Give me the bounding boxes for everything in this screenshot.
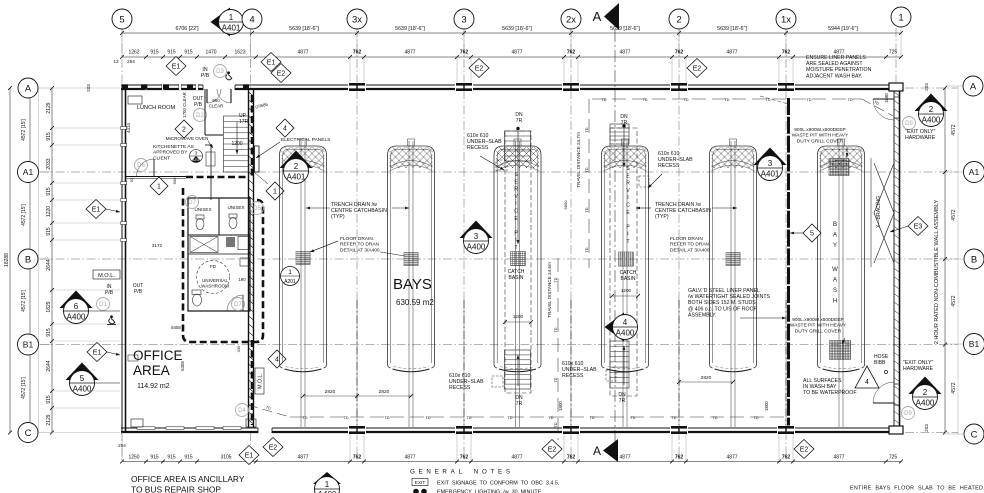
D6 tag — [135, 159, 148, 172]
svg-text:@ 406 o.c. TO U/S OF ROOF: @ 406 o.c. TO U/S OF ROOF — [688, 306, 757, 312]
svg-text:A401: A401 — [222, 24, 241, 33]
svg-text:1: 1 — [288, 269, 292, 276]
svg-text:5: 5 — [80, 374, 85, 383]
svg-text:/w WATERTIGHT SEALED JOINTS: /w WATERTIGHT SEALED JOINTS — [688, 294, 770, 300]
lunch/office divider wall — [126, 176, 186, 178]
north wall window breaks (office) — [145, 84, 147, 90]
svg-text:T: T — [626, 239, 629, 245]
TD vertical line 2 — [557, 258, 559, 440]
svg-text:LUNCH ROOM: LUNCH ROOM — [137, 105, 176, 111]
liner wall leader — [760, 96, 788, 104]
svg-text:C: C — [971, 429, 978, 440]
svg-text:FLOOR DRAIN.: FLOOR DRAIN. — [340, 236, 374, 242]
svg-text:900L.x900W.x600DEEP: 900L.x900W.x600DEEP — [794, 127, 845, 133]
svg-text:RECESS: RECESS — [658, 163, 680, 169]
2820 dims right — [679, 381, 733, 383]
svg-text:4572: 4572 — [951, 124, 957, 135]
svg-text:I: I — [627, 232, 628, 238]
svg-text:GALV.’D STEEL LINER PANEL: GALV.’D STEEL LINER PANEL — [688, 288, 760, 294]
svg-text:762: 762 — [782, 455, 791, 461]
right bubble connector line — [957, 86, 959, 434]
svg-text:S: S — [833, 288, 837, 294]
svg-text:915: 915 — [184, 50, 193, 56]
svg-text:762: 762 — [460, 455, 469, 461]
svg-text:A400: A400 — [73, 385, 92, 394]
svg-text:RECESS: RECESS — [562, 373, 584, 379]
svg-text:5944 [19'-6"]: 5944 [19'-6"] — [828, 26, 858, 32]
svg-text:18288: 18288 — [4, 253, 10, 267]
svg-text:1470: 1470 — [205, 50, 216, 56]
svg-text:D7: D7 — [234, 302, 242, 308]
svg-text:1262: 1262 — [128, 50, 139, 56]
svg-text:4: 4 — [249, 14, 254, 25]
unisex washroom fixtures — [196, 219, 204, 230]
svg-text:915: 915 — [167, 455, 176, 461]
svg-text:5639 [18'-6"]: 5639 [18'-6"] — [502, 26, 532, 32]
svg-text:A201: A201 — [192, 158, 200, 162]
svg-text:1700 CLEAR: 1700 CLEAR — [182, 92, 187, 118]
D1 tag — [97, 298, 110, 311]
office south windows — [137, 427, 155, 430]
service pit stair top bay 4 — [610, 124, 629, 144]
svg-text:A: A — [593, 444, 601, 458]
svg-text:630.59 m2: 630.59 m2 — [396, 298, 434, 307]
svg-text:D4: D4 — [238, 408, 246, 414]
svg-text:1200: 1200 — [231, 141, 242, 147]
marker 3/A401 — [754, 148, 787, 166]
svg-text:E1: E1 — [245, 453, 254, 460]
grid bubble 1 — [891, 7, 911, 27]
svg-text:FLOOR DRAIN: FLOOR DRAIN — [670, 236, 703, 242]
svg-text:D1: D1 — [99, 302, 107, 308]
D2 tag — [194, 109, 207, 122]
svg-text:CLEAR: CLEAR — [209, 103, 224, 108]
diamond E1 left low — [87, 343, 107, 362]
svg-text:335: 335 — [236, 345, 241, 352]
svg-text:E2: E2 — [269, 445, 278, 452]
svg-text:610x 610: 610x 610 — [467, 133, 488, 139]
svg-text:UNDER–SLAB: UNDER–SLAB — [449, 379, 484, 385]
marker 1/A201 — [281, 267, 300, 286]
svg-text:7R: 7R — [516, 401, 523, 407]
marker 1/A400 bottom — [313, 472, 341, 484]
svg-text:C: C — [25, 428, 32, 439]
svg-text:915: 915 — [46, 328, 52, 337]
grid bubble 2x — [561, 9, 581, 29]
grid bubble 2 — [669, 9, 689, 29]
left row bubbles — [18, 78, 38, 98]
north wall jamb blocks office — [141, 84, 147, 89]
svg-text:P/B: P/B — [194, 102, 203, 108]
X bracing — [870, 158, 872, 267]
svg-text:(TYP): (TYP) — [331, 214, 345, 220]
svg-text:W: W — [832, 267, 838, 273]
svg-text:203: 203 — [924, 83, 929, 91]
svg-text:2: 2 — [294, 162, 299, 171]
waste pit wash bay top — [829, 159, 849, 176]
grid lower dark segments — [356, 300, 358, 426]
svg-text:I: I — [515, 238, 516, 244]
trench drain bay 4 — [622, 141, 624, 427]
left dim chain 4572 — [29, 88, 31, 433]
svg-text:1200: 1200 — [621, 288, 632, 293]
svg-text:H: H — [833, 299, 837, 305]
exit door swing top right — [893, 97, 900, 118]
row A extension left — [52, 87, 120, 89]
section cut line A-A — [614, 10, 616, 452]
svg-text:D9: D9 — [904, 411, 912, 417]
grid bubble 5 — [112, 9, 132, 29]
svg-text:BIBB: BIBB — [874, 360, 886, 366]
diamond E1 left mid — [86, 200, 106, 219]
diamond E2 bottom mid — [542, 440, 562, 459]
svg-text:P/B: P/B — [201, 73, 210, 79]
svg-text:1829: 1829 — [46, 301, 52, 312]
svg-text:915: 915 — [167, 50, 176, 56]
svg-text:4: 4 — [865, 379, 869, 386]
svg-text:92: 92 — [129, 177, 134, 182]
south wall — [121, 427, 901, 429]
svg-text:G E N E R A L N O T E S: G E N E R A L N O T E S — [410, 469, 511, 476]
svg-text:TD: TD — [548, 416, 553, 420]
svg-text:DETAIL AT 3/A400: DETAIL AT 3/A400 — [670, 247, 710, 253]
accessibility symbol — [226, 71, 232, 79]
marker 2/A401 — [280, 151, 313, 169]
bus outline bay 1 — [280, 146, 327, 365]
svg-text:7R: 7R — [516, 118, 523, 124]
bus outline bay 2 — [388, 146, 435, 365]
svg-text:A1: A1 — [23, 167, 34, 177]
svg-text:2129: 2129 — [46, 102, 52, 113]
svg-text:4: 4 — [275, 357, 279, 364]
svg-text:1200: 1200 — [513, 314, 524, 319]
diamond 1 bays — [266, 182, 284, 200]
svg-text:915: 915 — [184, 455, 193, 461]
svg-text:TO BE WATERPROOF: TO BE WATERPROOF — [803, 390, 857, 396]
2820 dims left — [303, 395, 411, 397]
M.O.L. vertical corridor label — [255, 368, 264, 394]
svg-text:762: 762 — [353, 455, 362, 461]
svg-text:2129: 2129 — [46, 414, 52, 425]
D7 D5 tags — [186, 196, 199, 209]
svg-text:WASTE PIT WITH HEAVY: WASTE PIT WITH HEAVY — [792, 133, 849, 139]
svg-text:TD: TD — [847, 98, 852, 102]
svg-text:A400: A400 — [916, 399, 935, 408]
svg-text:ASSEMBLY.: ASSEMBLY. — [688, 312, 716, 318]
svg-text:1: 1 — [229, 13, 234, 22]
svg-text:BASIN: BASIN — [620, 276, 635, 282]
svg-text:AREA: AREA — [133, 363, 170, 378]
catch basin bay5 — [726, 253, 740, 266]
svg-text:E3: E3 — [914, 224, 923, 231]
svg-text:ENTIRE BAYS FLOOR SLAB TO: ENTIRE BAYS FLOOR SLAB TO BE HEATED. — [850, 486, 984, 492]
trench drain bay 1 — [300, 141, 302, 427]
service pit stair top bay 3 — [505, 131, 531, 161]
svg-text:600: 600 — [172, 177, 177, 184]
svg-text:4877: 4877 — [404, 50, 415, 56]
svg-text:TD: TD — [554, 277, 558, 282]
svg-text:A401: A401 — [287, 173, 306, 182]
svg-text:I: I — [627, 195, 628, 201]
svg-text:UNISEX: UNISEX — [194, 207, 211, 212]
service pit bay 4 dashed outline — [610, 128, 637, 396]
svg-text:TRAVEL DISTANCE 24.7m: TRAVEL DISTANCE 24.7m — [576, 132, 581, 188]
svg-text:A400: A400 — [467, 243, 486, 252]
svg-text:E2: E2 — [475, 66, 484, 73]
svg-text:5639 [18'-6"]: 5639 [18'-6"] — [289, 26, 319, 32]
diamond 4 electrical — [276, 119, 294, 137]
svg-text:3: 3 — [195, 151, 198, 156]
svg-text:915: 915 — [46, 227, 52, 236]
svg-text:E1: E1 — [172, 64, 181, 71]
svg-text:ENSURE LINER PANELS: ENSURE LINER PANELS — [806, 55, 866, 61]
D9 tag bottom — [902, 407, 915, 420]
svg-text:7R: 7R — [621, 120, 628, 126]
svg-text:725: 725 — [889, 50, 898, 56]
svg-text:CENTRE CATCHBASIN: CENTRE CATCHBASIN — [655, 208, 711, 214]
svg-text:DETAIL AT 3/A400: DETAIL AT 3/A400 — [340, 247, 380, 253]
svg-text:ALL SURFACES: ALL SURFACES — [803, 378, 842, 384]
svg-text:ADJACENT WASH BAY.: ADJACENT WASH BAY. — [806, 73, 862, 79]
svg-text:TD: TD — [585, 247, 589, 252]
svg-text:1680: 1680 — [884, 93, 889, 103]
svg-text:2820: 2820 — [379, 389, 390, 395]
svg-text:TD: TD — [724, 98, 729, 102]
svg-text:915: 915 — [46, 132, 52, 141]
svg-text:254: 254 — [118, 443, 126, 448]
diamond 5 keynote — [803, 224, 821, 242]
marker 3/A400 — [460, 221, 493, 239]
svg-text:B1: B1 — [969, 339, 980, 349]
svg-text:A: A — [833, 278, 837, 284]
svg-text:2: 2 — [923, 388, 928, 397]
svg-text:EXIT: EXIT — [415, 480, 426, 486]
svg-text:4572: 4572 — [951, 295, 957, 306]
svg-text:P/B: P/B — [105, 290, 114, 296]
svg-text:TD: TD — [712, 416, 717, 420]
svg-text:E1: E1 — [267, 60, 276, 67]
svg-text:WASHROOM: WASHROOM — [201, 284, 229, 289]
marker 2/A400 top right — [915, 94, 948, 112]
D9 tag top — [903, 117, 916, 130]
grid line 1 — [895, 28, 897, 88]
svg-text:TD: TD — [585, 207, 589, 212]
marker 5/A400 — [66, 363, 99, 381]
svg-text:E2: E2 — [548, 447, 557, 454]
svg-text:B: B — [833, 222, 837, 228]
svg-text:4572: 4572 — [951, 209, 957, 220]
svg-text:5: 5 — [119, 14, 124, 25]
grid 4 shaft wall — [248, 89, 250, 428]
svg-text:A1: A1 — [969, 167, 980, 177]
diamond E1/E2 grid4 — [261, 53, 281, 72]
svg-text:610x 610: 610x 610 — [658, 151, 679, 157]
svg-text:WASTE PIT WITH HEAVY: WASTE PIT WITH HEAVY — [790, 323, 847, 329]
top dim line 2 — [122, 56, 901, 58]
svg-text:5639 [18'-6"]: 5639 [18'-6"] — [395, 26, 425, 32]
svg-text:MICROWAVE OVEN: MICROWAVE OVEN — [166, 136, 209, 141]
svg-text:TD: TD — [765, 98, 770, 102]
svg-text:A201: A201 — [284, 279, 296, 285]
svg-text:4572 [15']: 4572 [15'] — [21, 203, 27, 225]
accessibility symbol left — [107, 315, 116, 324]
floor drain bay2 — [404, 253, 418, 266]
grid bubble 3 — [454, 9, 474, 29]
svg-text:EXIT SIGNAGE TO CONFORM TO: EXIT SIGNAGE TO CONFORM TO OBC 3.4.5. — [437, 481, 559, 487]
svg-text:HARDWARE: HARDWARE — [903, 366, 934, 372]
svg-text:D7: D7 — [188, 200, 196, 206]
svg-text:D2: D2 — [196, 113, 204, 119]
svg-text:D5: D5 — [253, 206, 261, 212]
svg-text:IN WASH BAY: IN WASH BAY — [803, 384, 837, 390]
row line A right stub — [905, 87, 958, 89]
svg-text:4572 [15']: 4572 [15'] — [21, 118, 27, 140]
janitor fixtures mid band — [190, 237, 218, 253]
svg-text:4877: 4877 — [619, 455, 630, 461]
svg-text:2x: 2x — [566, 14, 576, 25]
svg-text:A: A — [970, 81, 977, 92]
row line B1 — [40, 344, 958, 346]
svg-text:1250: 1250 — [128, 455, 139, 461]
svg-text:1: 1 — [273, 189, 277, 196]
grid line 5 — [121, 28, 123, 88]
east wall (2hr rated, hatched) — [893, 89, 895, 428]
D3 tag — [214, 65, 227, 78]
svg-text:2033: 2033 — [46, 158, 52, 169]
svg-text:BAYS: BAYS — [393, 276, 432, 293]
svg-text:2: 2 — [676, 14, 681, 25]
svg-text:E2: E2 — [277, 71, 286, 78]
universal washroom — [197, 261, 230, 294]
svg-text:ARE SEALED AGAINST: ARE SEALED AGAINST — [806, 61, 863, 67]
svg-text:13: 13 — [113, 59, 119, 64]
svg-text:915: 915 — [46, 395, 52, 404]
svg-text:TD: TD — [671, 416, 676, 420]
diamond E2 grid2 — [687, 59, 707, 78]
svg-text:4572 [15']: 4572 [15'] — [21, 289, 27, 311]
svg-text:TD: TD — [630, 416, 635, 420]
svg-text:725: 725 — [889, 455, 898, 461]
grid bubble 4 — [242, 9, 262, 29]
svg-text:TD: TD — [554, 422, 558, 427]
svg-text:190: 190 — [238, 277, 246, 282]
D4 tag — [236, 404, 249, 417]
bus outline bay 4 — [602, 146, 649, 365]
svg-text:1800: 1800 — [558, 401, 563, 411]
svg-text:E1: E1 — [93, 350, 102, 357]
grid bubble 3x — [347, 9, 367, 29]
svg-text:OFFICE: OFFICE — [133, 348, 183, 363]
floor drain bay1 — [296, 252, 310, 265]
svg-text:A400: A400 — [616, 329, 635, 338]
triangle 4 keynote wash2 — [855, 366, 879, 388]
catch basin bay3 — [511, 252, 526, 266]
diamond E3 — [908, 217, 928, 236]
svg-text:T: T — [514, 245, 517, 251]
electrical panels — [255, 146, 260, 172]
svg-text:1: 1 — [898, 12, 903, 23]
svg-text:OFFICE AREA IS ANCILLARY: OFFICE AREA IS ANCILLARY — [131, 474, 245, 484]
recess square bay3 bottom — [492, 376, 503, 387]
west wall — [121, 85, 123, 432]
svg-text:TD: TD — [425, 416, 430, 420]
svg-text:TD: TD — [753, 416, 758, 420]
svg-text:ELECTRICAL PANELS: ELECTRICAL PANELS — [281, 137, 330, 143]
svg-text:BOTH SIDES 152 M. STUDS: BOTH SIDES 152 M. STUDS — [688, 300, 756, 306]
svg-text:X—BRACING: X—BRACING — [876, 196, 882, 228]
svg-text:TD: TD — [343, 416, 348, 420]
section marker A top — [604, 3, 619, 30]
svg-text:5800: 5800 — [563, 200, 568, 210]
3/A201 tag — [190, 150, 203, 163]
trench drain bay 6 — [838, 141, 840, 427]
svg-text:2644: 2644 — [46, 259, 52, 270]
svg-text:R: R — [514, 187, 518, 193]
svg-text:E2: E2 — [800, 447, 809, 454]
svg-text:TD: TD — [554, 377, 558, 382]
svg-text:4877: 4877 — [297, 455, 308, 461]
svg-text:UNISEX: UNISEX — [227, 205, 244, 210]
svg-text:DUTY GRILL COVER: DUTY GRILL COVER — [797, 138, 844, 144]
steel columns — [348, 83, 366, 92]
row line A1 — [40, 171, 958, 173]
svg-text:1x: 1x — [781, 14, 791, 25]
svg-text:FD: FD — [210, 264, 216, 269]
svg-text:KITCHENETTE AS: KITCHENETTE AS — [153, 144, 194, 150]
svg-text:TRENCH DRAIN /w: TRENCH DRAIN /w — [655, 202, 701, 208]
diamond E2 bottom office — [263, 438, 283, 457]
svg-text:762: 762 — [567, 455, 576, 461]
svg-text:610x 610: 610x 610 — [562, 361, 583, 367]
svg-text:TD: TD — [683, 98, 688, 102]
service pit bay 3 dashed outline — [505, 131, 531, 393]
svg-text:2820: 2820 — [325, 389, 336, 395]
svg-text:A401: A401 — [761, 170, 780, 179]
svg-text:B1: B1 — [23, 340, 34, 350]
svg-text:C: C — [626, 203, 630, 209]
svg-text:A400: A400 — [922, 116, 941, 125]
svg-text:D3: D3 — [216, 69, 224, 75]
svg-text:17R: 17R — [239, 119, 249, 125]
svg-text:TD: TD — [554, 327, 558, 332]
svg-text:M.O.L.: M.O.L. — [98, 273, 115, 279]
svg-text:3x: 3x — [352, 14, 362, 25]
right row bubbles — [963, 76, 983, 96]
svg-text:TO BUS REPAIR SHOP: TO BUS REPAIR SHOP — [131, 485, 221, 493]
trench drain bay 5 — [730, 141, 732, 427]
svg-text:TD: TD — [302, 416, 307, 420]
svg-text:B: B — [25, 254, 31, 265]
svg-text:915: 915 — [46, 187, 52, 196]
svg-text:UNDER–SLAB: UNDER–SLAB — [658, 157, 693, 163]
svg-text:3: 3 — [768, 159, 773, 168]
waste pit wash bay bottom — [830, 341, 851, 360]
marker 2/A400 bottom right — [909, 377, 942, 395]
svg-text:4877: 4877 — [511, 50, 522, 56]
service pit stair bottom bay 3 — [505, 350, 531, 389]
bus outline bay 5 — [710, 146, 757, 365]
svg-text:M.O.L.: M.O.L. — [258, 373, 264, 389]
svg-text:C: C — [514, 209, 518, 215]
grid line 3x — [356, 28, 358, 462]
left bubble connector line — [38, 88, 40, 433]
svg-text:4877: 4877 — [619, 50, 630, 56]
svg-text:2: 2 — [929, 105, 934, 114]
svg-text:"EXIT ONLY": "EXIT ONLY" — [905, 129, 935, 135]
svg-text:960: 960 — [212, 98, 220, 103]
grid bubble 1x — [776, 9, 796, 29]
south door office — [258, 427, 272, 434]
